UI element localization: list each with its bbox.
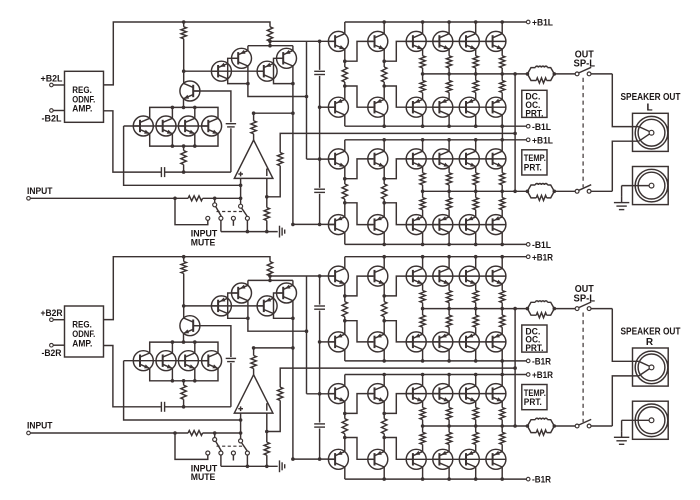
resistor R6R: [278, 387, 283, 400]
resistor emitter: [500, 315, 505, 327]
transistor Q8L: [178, 116, 198, 136]
wire: [547, 74, 555, 81]
resistor emitter: [420, 408, 425, 420]
transistor Q32R: [486, 384, 506, 404]
transistor Q23L: [328, 215, 348, 235]
wire: [203, 432, 241, 434]
wire: [448, 257, 450, 269]
switch lever: [579, 302, 591, 308]
wire: [345, 276, 373, 296]
junction: [343, 177, 347, 181]
wire: [448, 115, 450, 126]
junction node A: [182, 69, 186, 73]
switch contact: [587, 72, 591, 76]
resistor emitter: [473, 80, 478, 92]
wire: [475, 426, 477, 432]
junction: [193, 106, 197, 110]
wire: [320, 106, 335, 108]
junction: [421, 190, 425, 194]
wire: [306, 276, 308, 394]
wire: [547, 185, 554, 191]
switch lever: [242, 443, 247, 451]
svg-text:SP-L: SP-L: [574, 59, 596, 70]
wire bus: [150, 134, 218, 147]
wire: [319, 76, 321, 188]
junction: [318, 392, 322, 396]
junction: [382, 412, 386, 416]
switch contact: [575, 424, 579, 428]
rail +B1 mid2: [345, 139, 527, 141]
svg-text:-B2R: -B2R: [42, 348, 62, 359]
wire: [344, 321, 346, 335]
switch lever: [579, 67, 591, 73]
wire: [175, 198, 208, 224]
wire: [501, 327, 503, 334]
switch lever: [216, 207, 221, 216]
junction: [343, 319, 347, 323]
wire: [269, 41, 271, 45]
wire: [292, 301, 294, 319]
junction: [513, 366, 517, 370]
wire: [319, 276, 321, 305]
resistor emitter: [446, 173, 451, 185]
wire: [345, 41, 373, 61]
wire: [183, 333, 185, 342]
junction: [173, 431, 177, 435]
mechanical link dashed: [582, 78, 584, 188]
junction: [291, 346, 295, 350]
speaker terminal - pin: [649, 183, 654, 188]
switch contact: [206, 216, 210, 220]
transistor Q30L: [459, 149, 479, 169]
junction: [252, 346, 256, 350]
wire: [30, 197, 188, 199]
switch lever: [579, 419, 591, 425]
wire: [422, 309, 424, 316]
wire: [248, 45, 293, 47]
block REG ODNF AMP U1R: [65, 306, 104, 357]
junction: [239, 184, 243, 188]
switch contact: [231, 451, 235, 455]
resistor emitter: [500, 291, 505, 303]
junction: [343, 436, 347, 440]
transistor Q19R: [459, 332, 479, 352]
junction: [474, 359, 478, 363]
wire: [612, 309, 639, 362]
rail -B1 bottom: [345, 478, 527, 480]
resistor R1R: [181, 262, 186, 274]
junction: [182, 379, 186, 383]
transistor Q13L: [368, 97, 388, 117]
svg-text:+B1L: +B1L: [532, 135, 553, 146]
op-amp - mark: [266, 169, 268, 177]
svg-text:-B1L: -B1L: [532, 122, 551, 133]
switch contact: [245, 451, 249, 455]
wire: [422, 140, 424, 152]
wire: [319, 429, 321, 460]
wire: [183, 257, 185, 262]
block REG ODNF AMP U1L: [65, 71, 104, 122]
wire: [501, 420, 503, 426]
wire: [319, 41, 321, 70]
wire: [554, 73, 575, 75]
wire: [448, 284, 450, 291]
wire: [344, 401, 346, 413]
wire: [344, 115, 346, 126]
resistor emitter: [500, 173, 505, 185]
wire: [292, 84, 294, 225]
wire: [344, 86, 346, 100]
transistor Q6L: [133, 116, 153, 136]
resistor R13L: [382, 184, 387, 199]
wire: [448, 375, 450, 387]
wire: [422, 210, 424, 217]
wire: [448, 185, 450, 191]
transistor Q5R: [180, 316, 200, 336]
resistor emitter: [420, 80, 425, 92]
junction: [474, 72, 478, 76]
svg-text:INPUT: INPUT: [27, 186, 53, 196]
junction: [246, 82, 250, 86]
svg-text:-B1L: -B1L: [532, 240, 551, 251]
speaker terminal - inner: [638, 407, 665, 434]
wire: [448, 140, 450, 152]
wire: [344, 438, 346, 452]
wire: [591, 425, 612, 427]
wire: [292, 46, 294, 51]
wire: [383, 49, 385, 61]
wire: [183, 399, 185, 407]
junction: [246, 230, 250, 234]
svg-text:PRT.: PRT.: [524, 397, 542, 407]
svg-text:+B1R: +B1R: [532, 252, 553, 263]
wire: [475, 401, 477, 407]
transistor Q10L: [328, 31, 348, 51]
op-amp U2L: [234, 140, 273, 178]
wire: [448, 420, 450, 426]
junction: [474, 477, 478, 481]
switch contact: [213, 203, 217, 207]
svg-text:INPUT: INPUT: [27, 421, 53, 431]
wire: [422, 93, 424, 100]
wire: [383, 232, 385, 244]
wire: [230, 363, 232, 407]
junction: [500, 190, 504, 194]
junction: [193, 144, 197, 148]
resistor emitter: [446, 291, 451, 303]
terminal -B1R bottom: [526, 477, 530, 481]
junction: [382, 373, 386, 377]
wire: [319, 311, 321, 423]
transistor Q14L: [406, 31, 426, 51]
svg-text:MUTE: MUTE: [191, 471, 216, 482]
transistor Q11L: [328, 97, 348, 117]
junction: [182, 340, 186, 344]
wire: [293, 458, 335, 460]
wire: [274, 58, 293, 83]
resistor R5R: [264, 442, 269, 455]
wire: [171, 368, 173, 381]
junction: [421, 373, 425, 377]
junction: [421, 20, 425, 24]
wire: [344, 82, 346, 86]
wire: [183, 381, 185, 385]
junction: [447, 72, 451, 76]
wire: [527, 302, 535, 308]
wire: [383, 257, 385, 269]
junction: [447, 138, 451, 142]
resistor emitter: [420, 291, 425, 303]
speaker terminal - box: [633, 167, 669, 205]
resistor R1L: [181, 27, 186, 39]
resistor emitter: [446, 315, 451, 327]
transistor Q33R: [486, 449, 506, 469]
transistor Q16L: [433, 31, 453, 51]
junction: [382, 201, 386, 205]
junction: [474, 307, 478, 311]
wire: [448, 232, 450, 244]
speaker terminal + inner: [638, 119, 665, 146]
junction: [513, 424, 517, 428]
wire: [266, 455, 268, 466]
wire: [383, 438, 385, 452]
svg-text:AMP.: AMP.: [72, 338, 92, 349]
switch contact: [575, 72, 579, 76]
switch contact: [587, 189, 591, 193]
transistor Q18R: [459, 266, 479, 286]
wire: [448, 444, 450, 451]
switch contact: [239, 439, 243, 443]
junction: [474, 255, 478, 259]
svg-text:R: R: [646, 337, 654, 348]
block TEMP PRT: [522, 385, 547, 410]
wire: [448, 74, 450, 81]
junction: [447, 307, 451, 311]
wire: [253, 134, 255, 140]
wire: [104, 22, 271, 85]
transistor Q29L: [433, 215, 453, 235]
wire feedback: [280, 368, 515, 387]
wire: [475, 375, 477, 387]
transistor Q3R: [277, 283, 297, 303]
junction: [382, 477, 386, 481]
wire: [422, 232, 424, 244]
wire: [193, 326, 231, 357]
junction: [382, 243, 386, 247]
wire: [527, 426, 536, 433]
resistor emitter: [473, 408, 478, 420]
resistor R9L: [382, 67, 387, 82]
wire: [501, 350, 503, 361]
rail output upper: [423, 308, 528, 310]
block TEMP PRT: [522, 150, 547, 175]
wire: [501, 232, 503, 244]
wire: [344, 49, 346, 61]
wire: [591, 308, 612, 310]
junction: [318, 274, 322, 278]
junction: [246, 317, 250, 321]
resistor emitter: [473, 315, 478, 327]
wire: [270, 40, 335, 42]
wire: [383, 284, 385, 296]
junction: [500, 243, 504, 247]
resistor R8L: [342, 67, 347, 82]
wire: [383, 401, 385, 413]
wire: [501, 257, 503, 269]
wire: [344, 434, 346, 438]
transistor Q26R: [406, 384, 426, 404]
transistor Q7R: [156, 351, 176, 371]
wire: [383, 140, 385, 152]
wire: [501, 361, 503, 375]
wire: [448, 167, 450, 173]
wire feedback: [280, 133, 515, 152]
wire: [53, 110, 64, 112]
wire: [448, 309, 450, 316]
switch contact: [213, 438, 217, 442]
wire: [183, 165, 185, 173]
wire: [194, 134, 196, 147]
wire: [344, 284, 346, 296]
wire: [639, 134, 649, 141]
op-amp + mark: [238, 408, 243, 410]
wire: [448, 426, 450, 432]
wire: [501, 309, 503, 316]
junction: [553, 72, 557, 76]
speaker terminal - inner: [638, 172, 665, 199]
junction: [382, 255, 386, 259]
wire: [221, 465, 278, 467]
resistor emitter: [446, 80, 451, 92]
resistor emitter: [473, 432, 478, 444]
switch contact: [219, 216, 223, 220]
wire: [422, 444, 424, 451]
transistor Q5L: [180, 81, 200, 101]
wire: [422, 191, 424, 197]
junction: [182, 405, 186, 409]
wire: [501, 126, 503, 140]
rail output lower: [423, 190, 528, 192]
speaker terminal - outer: [635, 404, 668, 437]
resistor damping: [536, 78, 546, 83]
wire: [232, 455, 234, 460]
resistor emitter: [446, 198, 451, 210]
wire: [248, 279, 293, 281]
switch contact: [575, 189, 579, 193]
junction: [265, 230, 269, 234]
wire: [639, 127, 649, 132]
wire: [53, 84, 64, 86]
wire: [527, 420, 535, 426]
wire: [383, 115, 385, 126]
wire: [475, 210, 477, 217]
transistor Q25R: [368, 449, 388, 469]
mechanical link: [217, 211, 245, 213]
wire base row: [384, 438, 506, 460]
transistor Q15R: [406, 332, 426, 352]
junction: [239, 431, 243, 435]
wire: [171, 342, 173, 353]
wire: [383, 375, 385, 387]
transistor Q15L: [406, 97, 426, 117]
rail +B1 top: [345, 21, 527, 23]
wire: [422, 375, 424, 387]
junction: [239, 197, 243, 201]
transistor Q4R: [257, 296, 277, 316]
rail -B1 mid1: [345, 125, 527, 127]
wire: [171, 107, 173, 118]
wire: [475, 284, 477, 291]
junction: [513, 307, 517, 311]
wire: [183, 99, 185, 108]
junction: [526, 72, 530, 76]
junction: [182, 255, 186, 259]
terminal -B1R mid1: [526, 359, 530, 363]
junction: [291, 457, 295, 461]
wire: [475, 191, 477, 197]
speaker terminal - outer: [635, 169, 668, 202]
terminal -B1L mid1: [526, 124, 530, 128]
transistor Q12L: [368, 31, 388, 51]
svg-text:MUTE: MUTE: [191, 236, 216, 247]
junction: [268, 40, 272, 44]
inductor output coil: [535, 418, 547, 420]
wire: [448, 303, 450, 309]
junction: [171, 144, 175, 148]
junction: [318, 40, 322, 44]
wire base row: [384, 159, 506, 179]
junction: [447, 243, 451, 247]
terminal INPUT: [27, 431, 31, 435]
speaker terminal + box: [633, 113, 669, 151]
wire: [422, 22, 424, 34]
resistor emitter: [446, 56, 451, 68]
terminal +B2R: [50, 318, 54, 322]
transistor Q27R: [406, 449, 426, 469]
wire: [527, 68, 535, 74]
transistor Q22L: [328, 149, 348, 169]
wire: [344, 61, 346, 67]
junction: [553, 424, 557, 428]
junction: [343, 201, 347, 205]
wire: [344, 179, 346, 184]
resistor R13R: [382, 419, 387, 434]
junction: [382, 294, 386, 298]
junction: [421, 72, 425, 76]
wire: [194, 107, 196, 118]
wire: [501, 303, 503, 309]
junction: [193, 340, 197, 344]
wire: [183, 146, 185, 150]
junction: [526, 424, 530, 428]
wire: [475, 115, 477, 126]
wire output node: [514, 74, 516, 191]
transistor Q30R: [459, 384, 479, 404]
resistor R12R: [342, 419, 347, 434]
junction: [421, 477, 425, 481]
resistor damping: [536, 430, 546, 435]
junction: [382, 138, 386, 142]
wire: [639, 361, 649, 366]
mechanical link: [217, 445, 245, 447]
wire: [475, 309, 477, 316]
junction: [474, 373, 478, 377]
capacitor C2L: [314, 70, 325, 72]
wire: [383, 199, 385, 203]
wire: [345, 394, 373, 414]
wire: [501, 167, 503, 173]
wire: [448, 467, 450, 479]
